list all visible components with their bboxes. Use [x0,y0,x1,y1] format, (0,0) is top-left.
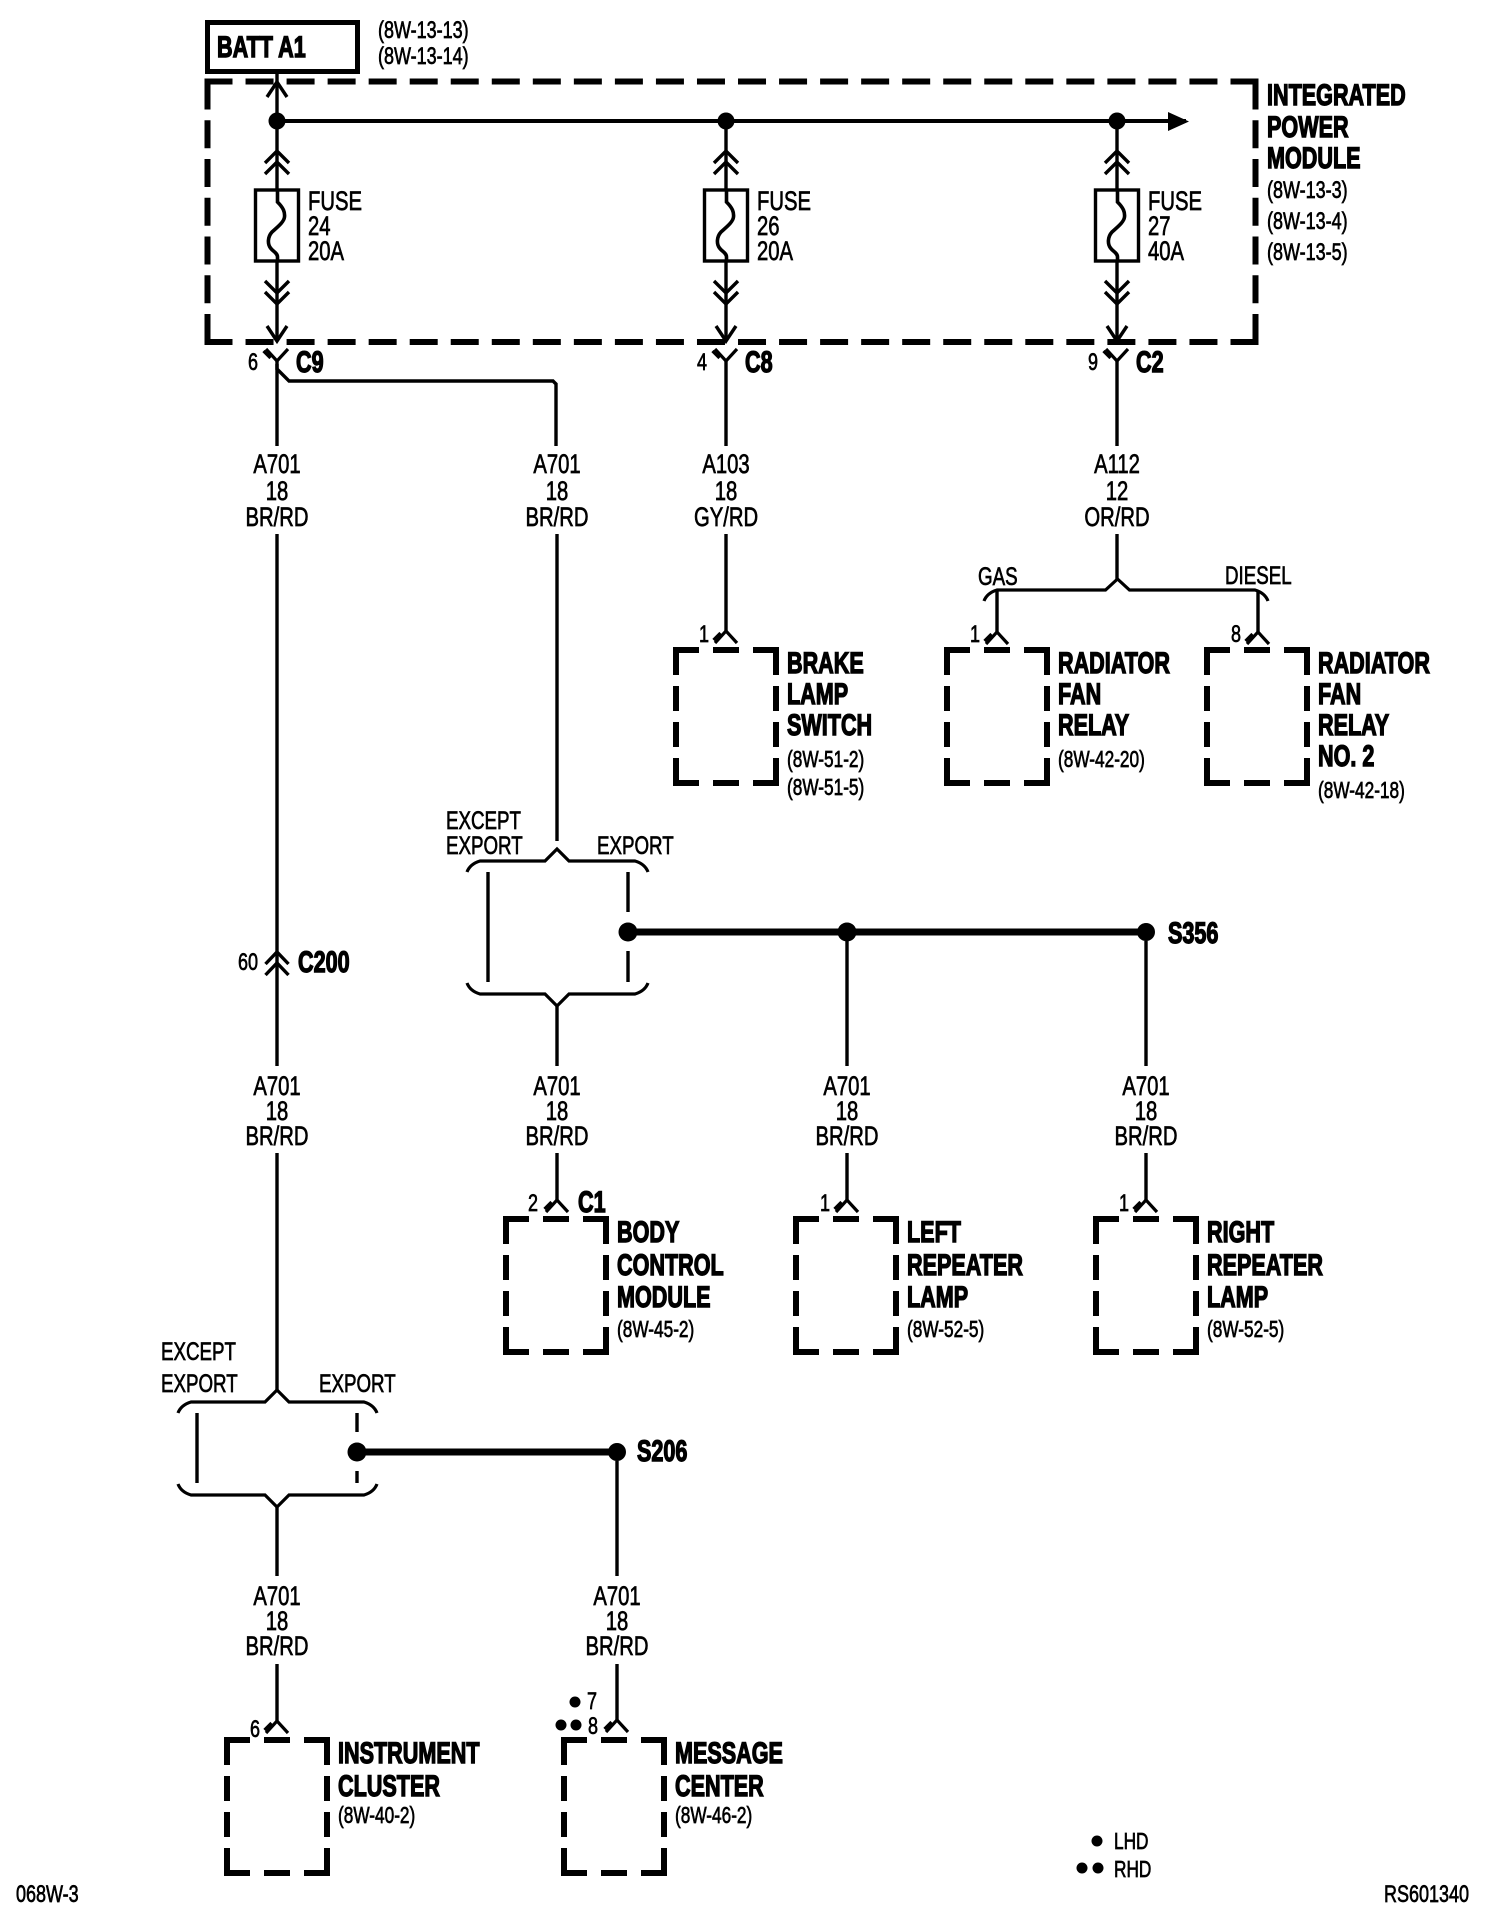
svg-text:REPEATER: REPEATER [1207,1247,1323,1281]
wire label A701 18 BR/RD (col 617) [586,1581,649,1662]
connector C1 pin 2 [528,1184,606,1218]
svg-text:068W-3: 068W-3 [16,1882,79,1908]
reference (8W-13-13)/(8W-13-14) [378,18,469,70]
svg-text:BR/RD: BR/RD [526,1121,589,1152]
svg-text:(8W-52-5): (8W-52-5) [1207,1318,1284,1343]
radiator fan relay no.2 label [1318,645,1430,803]
radiator fan relay box [944,647,1050,653]
svg-text:RELAY: RELAY [1318,707,1389,741]
except-export leg wire (left) [195,1413,198,1483]
wire label A701 18 BR/RD (col 1146) [1115,1071,1178,1152]
svg-text:(8W-42-20): (8W-42-20) [1058,748,1145,773]
svg-text:LHD: LHD [1114,1830,1148,1855]
svg-text:1: 1 [1119,1191,1129,1217]
svg-text:(8W-51-5): (8W-51-5) [787,776,864,801]
export option brace bottom (left) [178,1484,377,1507]
svg-text:INTEGRATED: INTEGRATED [1267,77,1406,111]
wire label A112 12 OR/RD [1084,449,1149,533]
IPM label INTEGRATED POWER MODULE [1267,77,1406,265]
body control module box [503,1216,609,1222]
svg-text:(8W-46-2): (8W-46-2) [675,1804,752,1829]
svg-text:C200: C200 [298,944,350,978]
svg-text:RADIATOR: RADIATOR [1058,645,1170,679]
svg-text:GAS: GAS [978,562,1018,590]
wire into right repeater lamp [1144,1153,1147,1200]
splice wire to S356 [637,929,1146,936]
svg-text:1: 1 [820,1191,830,1217]
svg-text:BR/RD: BR/RD [586,1631,649,1662]
connector pin 8 at radiator fan relay no.2 [1231,622,1269,648]
splice node on export leg (left) [348,1443,367,1462]
connector pins 7/8 at message center [556,1689,629,1740]
wire into instrument cluster [275,1664,278,1721]
wire A701 to message center [615,1461,618,1576]
svg-text:(8W-42-18): (8W-42-18) [1318,779,1405,804]
svg-text:LAMP: LAMP [1207,1279,1268,1313]
wire A701 down to left export brace [275,1153,278,1390]
brake lamp switch box [673,647,779,653]
svg-text:CONTROL: CONTROL [617,1247,724,1281]
svg-text:BR/RD: BR/RD [816,1121,879,1152]
svg-text:(8W-52-5): (8W-52-5) [907,1318,984,1343]
connector C200 pin 60 [238,944,350,978]
connector pin 6 at instrument cluster [250,1717,288,1743]
wire A112 down to gas/diesel bracket [1115,534,1118,580]
wire A701 from C9 down [275,361,278,446]
svg-text:(8W-13-5): (8W-13-5) [1267,240,1348,266]
wire A701 to left repeater lamp [845,941,848,1066]
svg-text:C9: C9 [296,344,324,378]
svg-text:BR/RD: BR/RD [246,1631,309,1662]
svg-text:6: 6 [248,350,258,376]
svg-text:RIGHT: RIGHT [1207,1214,1274,1248]
svg-text:RS601340: RS601340 [1384,1882,1469,1908]
svg-text:LAMP: LAMP [787,676,848,710]
svg-text:(8W-13-4): (8W-13-4) [1267,209,1348,235]
svg-text:BR/RD: BR/RD [1115,1121,1178,1152]
fuse 27 value label [1148,186,1202,267]
svg-text:S206: S206 [637,1433,687,1467]
fuse 24 (20A) F24 [256,121,299,341]
wire A701 down to C200 [275,534,278,1066]
right repeater lamp label [1207,1214,1323,1342]
svg-text:NO. 2: NO. 2 [1318,738,1374,772]
fuse 26 (20A) F26 [705,121,748,341]
svg-text:C2: C2 [1136,344,1164,378]
wire A103 down to brake lamp switch [724,534,727,631]
svg-text:2: 2 [528,1191,538,1217]
svg-text:EXPORT: EXPORT [319,1369,396,1397]
wire A103 from C8 down [724,361,727,446]
connector C8 pin 4 [697,344,773,378]
svg-text:C8: C8 [745,344,773,378]
instrument cluster box [224,1737,330,1743]
svg-text:(8W-13-14): (8W-13-14) [378,44,469,70]
svg-text:(8W-13-3): (8W-13-3) [1267,178,1348,204]
connector pin 1 at radiator fan relay [970,622,1008,648]
export option brace top (left) [178,1390,377,1413]
svg-text:8: 8 [1231,622,1241,648]
except-export leg wire [486,872,489,982]
fuse 24 value label [308,186,362,267]
svg-text:REPEATER: REPEATER [907,1247,1023,1281]
legend RHD [1077,1858,1152,1883]
svg-text:(8W-40-2): (8W-40-2) [338,1804,415,1829]
svg-text:RELAY: RELAY [1058,707,1129,741]
svg-text:LAMP: LAMP [907,1279,968,1313]
svg-text:EXPORT: EXPORT [161,1369,238,1397]
svg-text:EXCEPT: EXCEPT [161,1337,236,1365]
brake lamp switch label [787,645,872,800]
body control module label [617,1214,724,1342]
svg-text:(8W-13-13): (8W-13-13) [378,18,469,44]
connector C9 pin 6 [248,344,324,378]
export option brace bottom (middle) [467,983,648,1006]
svg-text:C1: C1 [578,1184,606,1218]
Integrated Power Module dashed outline [205,82,1259,343]
svg-text:SWITCH: SWITCH [787,707,872,741]
svg-text:1: 1 [970,622,980,648]
splice wire to S206 [366,1449,617,1456]
svg-text:A701: A701 [253,449,300,480]
wire A701 branch down to export brace [555,534,558,841]
svg-text:(8W-51-2): (8W-51-2) [787,748,864,773]
wire A701 to body control module [555,1006,558,1066]
svg-text:20A: 20A [757,236,793,267]
wire into left repeater lamp [845,1153,848,1200]
svg-text:INSTRUMENT: INSTRUMENT [338,1735,480,1769]
wire into message center [615,1664,618,1720]
svg-text:GY/RD: GY/RD [694,502,758,533]
right repeater lamp box [1093,1216,1199,1222]
connector pin 1 at brake lamp switch [699,622,737,648]
wire label A701 18 BR/RD (left) [246,449,309,533]
svg-text:FAN: FAN [1318,676,1361,710]
wire diesel branch [1256,591,1259,632]
radiator fan relay no.2 box [1204,647,1310,653]
svg-text:CLUSTER: CLUSTER [338,1768,440,1802]
wire gas branch [995,591,998,632]
svg-text:60: 60 [238,950,258,976]
svg-text:MODULE: MODULE [617,1279,711,1313]
export option brace top (middle) [467,849,648,872]
wire A701 to instrument cluster [275,1507,278,1576]
gas/diesel split bracket [984,579,1268,601]
svg-text:EXPORT: EXPORT [446,831,523,859]
EXCEPT EXPORT label (middle) [446,806,523,859]
svg-text:9: 9 [1088,350,1098,376]
svg-text:S356: S356 [1168,915,1218,949]
bus junction node at fuse 27 [1109,113,1126,130]
svg-text:CENTER: CENTER [675,1768,764,1802]
svg-text:A701: A701 [533,449,580,480]
svg-text:BATT A1: BATT A1 [217,29,306,63]
export leg wire [626,872,629,982]
wire label A701 18 BR/RD (col 847) [816,1071,879,1152]
svg-text:EXPORT: EXPORT [597,831,674,859]
legend LHD [1092,1830,1149,1855]
wire label A701 18 BR/RD (col 277 lower) [246,1581,309,1662]
radiator fan relay label [1058,645,1170,772]
svg-text:DIESEL: DIESEL [1225,561,1292,589]
wire label A701 18 BR/RD (branch) [526,449,589,533]
bus junction node at fuse 26 [718,113,735,130]
wire A112 from C2 down [1115,361,1118,446]
svg-text:BR/RD: BR/RD [246,1121,309,1152]
wire label A701 18 BR/RD (col 277) [246,1071,309,1152]
wire label A103 18 GY/RD [694,449,758,533]
svg-text:20A: 20A [308,236,344,267]
connector C2 pin 9 [1088,344,1164,378]
left repeater lamp label [907,1214,1023,1342]
wire label A701 18 BR/RD (col 557) [526,1071,589,1152]
svg-text:7: 7 [587,1689,597,1715]
message center box [561,1737,667,1743]
splice S206 [608,1433,687,1467]
wire to BATT A1 with up arrow [267,74,287,121]
svg-text:MESSAGE: MESSAGE [675,1735,783,1769]
splice S356 [1137,915,1218,949]
left repeater lamp box [793,1216,899,1222]
bus junction node at fuse 24 [269,113,286,130]
EXCEPT EXPORT label (left) [161,1337,238,1397]
svg-text:6: 6 [250,1717,260,1743]
fuse 27 (40A) F27 [1096,121,1139,341]
svg-text:8: 8 [588,1714,598,1740]
svg-text:RADIATOR: RADIATOR [1318,645,1430,679]
fuse 26 value label [757,186,811,267]
svg-text:(8W-45-2): (8W-45-2) [617,1318,694,1343]
svg-text:FAN: FAN [1058,676,1101,710]
wire A701 to right repeater lamp [1144,941,1147,1066]
svg-text:RHD: RHD [1114,1858,1151,1883]
battery feed BATT A1 [208,23,358,72]
message center label [675,1735,783,1828]
connector pin 1 at right repeater lamp [1119,1191,1157,1217]
svg-text:40A: 40A [1148,236,1184,267]
battery bus wire inside IPM [277,112,1189,131]
svg-text:BR/RD: BR/RD [246,502,309,533]
svg-text:BR/RD: BR/RD [526,502,589,533]
instrument cluster label [338,1735,480,1828]
svg-text:MODULE: MODULE [1267,140,1361,174]
svg-text:OR/RD: OR/RD [1084,502,1149,533]
splice node on export leg [619,923,638,942]
svg-text:BODY: BODY [617,1214,679,1248]
wire into body control module [555,1153,558,1200]
svg-text:LEFT: LEFT [907,1214,961,1248]
svg-text:A103: A103 [702,449,749,480]
svg-text:A112: A112 [1094,449,1140,480]
export leg wire (left) [355,1413,358,1483]
svg-text:4: 4 [697,350,707,376]
splice node left repeater branch [838,923,857,942]
svg-text:BRAKE: BRAKE [787,645,864,679]
svg-text:POWER: POWER [1267,109,1349,143]
connector pin 1 at left repeater lamp [820,1191,858,1217]
wire branch C9 to second A701 leg [277,364,556,446]
svg-text:1: 1 [699,622,709,648]
